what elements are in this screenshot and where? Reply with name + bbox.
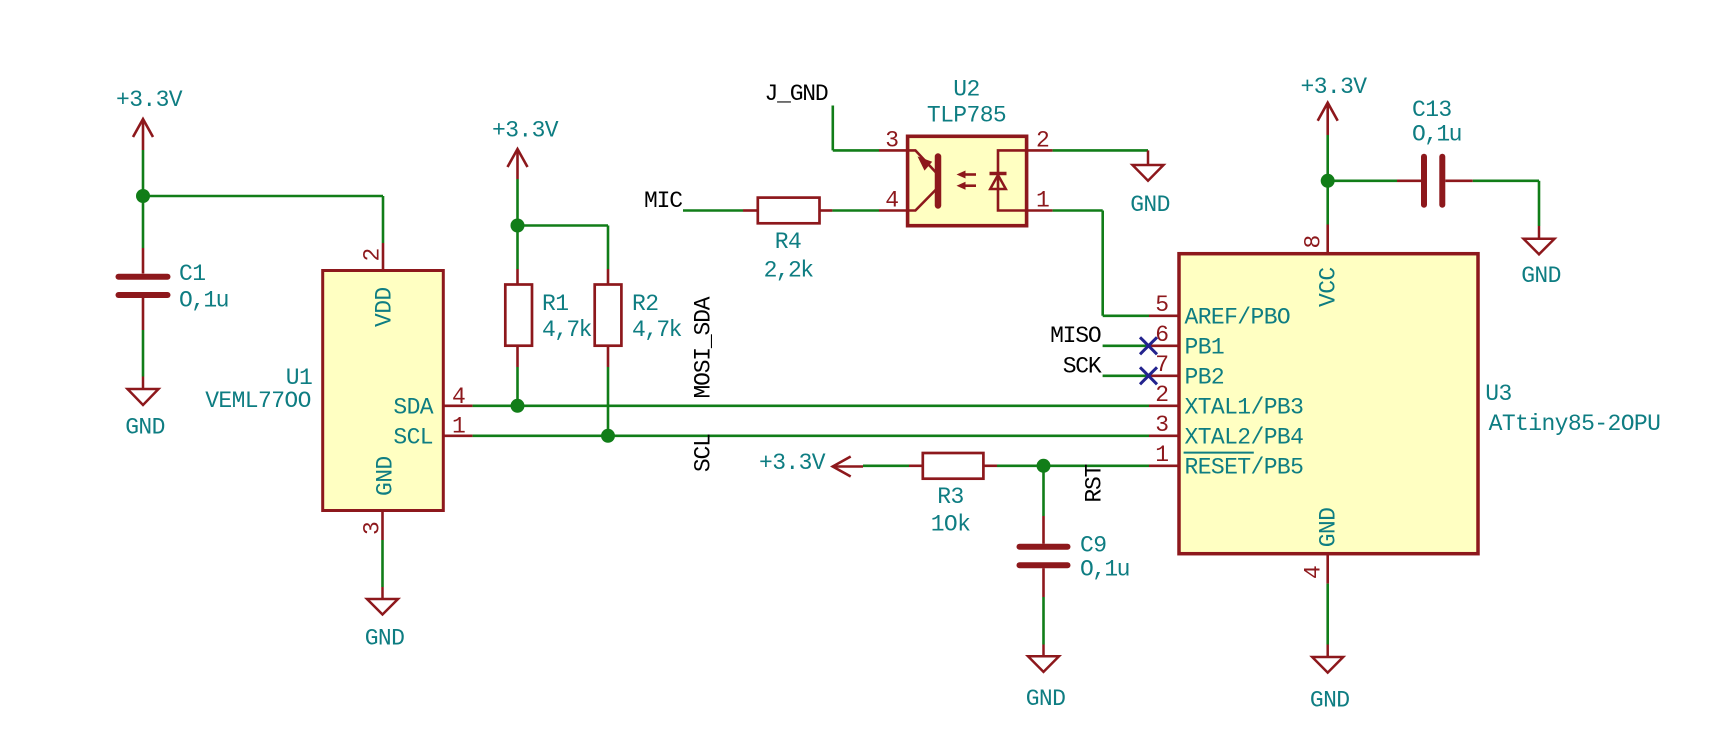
svg-text:4,7k: 4,7k xyxy=(542,317,592,343)
svg-text:7: 7 xyxy=(1155,352,1168,378)
svg-text:4,7k: 4,7k xyxy=(632,317,682,343)
svg-text:GND: GND xyxy=(1310,688,1350,714)
svg-text:2: 2 xyxy=(1036,128,1049,154)
svg-text:1: 1 xyxy=(452,414,465,440)
svg-text:AREF/PBO: AREF/PBO xyxy=(1185,304,1291,330)
svg-text:2: 2 xyxy=(1155,382,1168,408)
label MISO xyxy=(1050,323,1101,349)
pin 4 SDA of U1 xyxy=(393,384,472,420)
pin 1 SCL of U1 xyxy=(393,414,472,451)
U2 phototransistor xyxy=(909,150,938,210)
capacitor C1 xyxy=(119,248,228,330)
svg-text:GND: GND xyxy=(1316,508,1342,548)
wire xyxy=(1538,181,1541,226)
label J_GND xyxy=(765,81,828,107)
pin 3 GND of U1 xyxy=(360,456,399,540)
resistor R4 xyxy=(743,198,832,284)
pin 6 PB1 of U3 xyxy=(1149,322,1225,360)
wire xyxy=(1326,181,1329,225)
ground xyxy=(125,377,165,441)
junction xyxy=(511,399,525,413)
svg-text:XTAL2/PB4: XTAL2/PB4 xyxy=(1185,424,1304,450)
svg-text:MIC: MIC xyxy=(644,188,682,214)
wire xyxy=(1326,135,1329,181)
wire xyxy=(683,209,743,212)
pin 4 of U2 xyxy=(879,188,908,214)
wire xyxy=(1103,314,1149,317)
svg-text:XTAL1/PB3: XTAL1/PB3 xyxy=(1185,394,1304,420)
svg-text:GND: GND xyxy=(1521,263,1561,289)
pin 2 of U2 xyxy=(1027,128,1053,154)
svg-text:PB2: PB2 xyxy=(1185,364,1225,390)
resistor R1 xyxy=(505,269,591,367)
wire SDA net xyxy=(473,404,1149,407)
junction xyxy=(601,429,615,443)
pin 7 PB2 of U3 xyxy=(1149,352,1225,390)
svg-text:VDD: VDD xyxy=(372,287,398,327)
power symbol +3.3V (above U3) xyxy=(1301,74,1368,135)
wire xyxy=(1101,211,1104,316)
wire xyxy=(518,224,609,227)
junction xyxy=(1321,174,1335,188)
wire xyxy=(1053,209,1103,212)
U2 light arrows xyxy=(957,171,977,190)
svg-text:VEML77OO: VEML77OO xyxy=(205,388,311,414)
svg-text:J_GND: J_GND xyxy=(765,81,828,107)
label MOSI_SDA xyxy=(691,296,717,398)
svg-text:MOSI_SDA: MOSI_SDA xyxy=(691,296,717,398)
svg-text:8: 8 xyxy=(1301,235,1327,248)
junction xyxy=(511,219,525,233)
pin 2 XTAL1/PB3 of U3 xyxy=(1149,382,1303,420)
svg-text:GND: GND xyxy=(1130,192,1170,218)
svg-text:RESET/PB5: RESET/PB5 xyxy=(1185,454,1304,480)
capacitor C13 xyxy=(1397,97,1473,205)
svg-text:4: 4 xyxy=(885,188,898,214)
optocoupler U2 TLP785 xyxy=(908,77,1027,226)
ground xyxy=(1026,645,1066,713)
svg-text:VCC: VCC xyxy=(1316,267,1342,307)
svg-text:R3: R3 xyxy=(937,484,963,510)
label RST xyxy=(1082,464,1108,502)
wire xyxy=(1103,344,1149,347)
svg-text:3: 3 xyxy=(1155,412,1168,438)
wire xyxy=(1042,466,1045,516)
svg-text:+3.3V: +3.3V xyxy=(1301,74,1368,100)
wire xyxy=(1042,597,1045,645)
no-connect X pin 6 xyxy=(1140,337,1157,354)
wire xyxy=(832,209,879,212)
svg-text:SCL: SCL xyxy=(393,424,433,450)
svg-text:2,2k: 2,2k xyxy=(764,258,814,284)
svg-text:RST: RST xyxy=(1082,464,1108,502)
label SCK xyxy=(1063,354,1102,380)
pin 5 AREF/PB0 of U3 xyxy=(1149,292,1290,330)
power symbol +3.3V (top-left) xyxy=(116,87,183,150)
svg-text:+3.3V: +3.3V xyxy=(759,450,826,476)
svg-text:SCL: SCL xyxy=(691,434,717,472)
wire xyxy=(1103,374,1149,377)
IC U1 VEML7700 xyxy=(205,271,443,511)
svg-text:ATtiny85-2OPU: ATtiny85-2OPU xyxy=(1489,411,1661,437)
svg-text:R2: R2 xyxy=(632,291,658,317)
ground xyxy=(1130,150,1170,218)
svg-text:GND: GND xyxy=(373,456,399,496)
wire xyxy=(831,106,834,151)
svg-text:U3: U3 xyxy=(1485,381,1511,407)
svg-text:6: 6 xyxy=(1155,322,1168,348)
wire xyxy=(863,464,909,467)
wire xyxy=(607,367,610,436)
pin 4 GND of U3 xyxy=(1301,508,1342,584)
svg-text:4: 4 xyxy=(1301,566,1327,579)
svg-text:1: 1 xyxy=(1155,442,1168,468)
pin 2 VDD of U1 xyxy=(360,243,398,327)
wire xyxy=(607,226,610,270)
svg-text:SDA: SDA xyxy=(393,394,433,420)
wire xyxy=(382,196,385,243)
wire SCL net xyxy=(473,434,1149,437)
ground xyxy=(1521,226,1561,289)
pin 1 RESET/PB5 of U3 xyxy=(1149,442,1303,480)
wire xyxy=(1473,180,1539,183)
wire xyxy=(997,464,1149,467)
svg-text:R1: R1 xyxy=(542,291,568,317)
wire xyxy=(516,367,519,406)
svg-text:3: 3 xyxy=(360,522,386,535)
junction xyxy=(1037,459,1051,473)
pin 3 of U2 xyxy=(879,128,908,154)
junction xyxy=(136,189,150,203)
wire xyxy=(1326,584,1329,645)
U2 LED diode xyxy=(990,150,1027,210)
svg-text:1Ok: 1Ok xyxy=(931,512,971,538)
ground xyxy=(1310,645,1350,714)
no-connect X pin 7 xyxy=(1140,367,1157,384)
label SCL xyxy=(691,434,717,472)
wire xyxy=(381,540,384,587)
wire xyxy=(1328,180,1397,183)
wire xyxy=(142,196,145,248)
svg-text:SCK: SCK xyxy=(1063,354,1102,380)
pin 8 VCC of U3 xyxy=(1301,225,1342,308)
svg-text:GND: GND xyxy=(1026,686,1066,712)
svg-text:3: 3 xyxy=(885,128,898,154)
wire xyxy=(833,149,879,152)
resistor R2 xyxy=(595,269,682,367)
power symbol +3.3V (above R1/R2) xyxy=(492,118,559,180)
svg-text:4: 4 xyxy=(452,384,465,410)
svg-text:+3.3V: +3.3V xyxy=(116,87,183,113)
label MIC xyxy=(644,188,682,214)
wire xyxy=(516,179,519,226)
svg-text:5: 5 xyxy=(1155,292,1168,318)
svg-text:O,1u: O,1u xyxy=(179,288,228,314)
svg-text:GND: GND xyxy=(365,626,405,652)
svg-text:+3.3V: +3.3V xyxy=(492,118,559,144)
wire xyxy=(1053,149,1148,152)
capacitor C9 xyxy=(1020,516,1129,597)
svg-text:C9: C9 xyxy=(1080,533,1106,559)
resistor R3 xyxy=(909,453,997,538)
pin 1 of U2 xyxy=(1027,188,1053,214)
IC U3 ATtiny85-20PU xyxy=(1179,254,1660,554)
pin 3 XTAL2/PB4 of U3 xyxy=(1149,412,1303,450)
wire xyxy=(516,226,519,270)
svg-text:2: 2 xyxy=(360,248,386,261)
svg-text:PB1: PB1 xyxy=(1185,334,1225,360)
svg-text:TLP785: TLP785 xyxy=(927,103,1006,129)
svg-text:MISO: MISO xyxy=(1050,323,1101,349)
svg-text:C1: C1 xyxy=(179,261,205,287)
svg-text:C13: C13 xyxy=(1412,97,1452,123)
ground xyxy=(365,587,405,652)
svg-text:O,1u: O,1u xyxy=(1412,122,1461,148)
wire xyxy=(143,195,383,198)
svg-text:1: 1 xyxy=(1036,188,1049,214)
wire xyxy=(142,330,145,377)
svg-text:GND: GND xyxy=(125,415,165,441)
svg-text:U2: U2 xyxy=(953,77,979,103)
power symbol +3.3V (at R3, pointing left) xyxy=(759,450,863,477)
svg-text:R4: R4 xyxy=(775,229,801,255)
svg-text:O,1u: O,1u xyxy=(1080,557,1129,583)
wire xyxy=(142,150,145,196)
